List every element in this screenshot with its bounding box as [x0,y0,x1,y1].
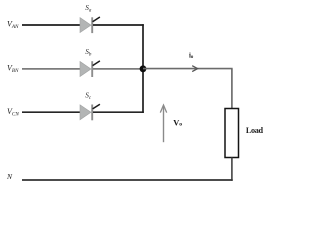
wire load bottom vertical [231,158,233,181]
wire cathode bus vertical [142,24,144,113]
thyristor Sc gate [93,104,100,109]
svg-text:Load: Load [246,126,264,135]
junction node dot [140,65,147,72]
thyristor Sa gate [93,17,100,22]
wire output horizontal [143,68,233,70]
wire phase A left [22,24,81,26]
thyristor Sb cathode bar [91,61,93,77]
arrow Vo [163,106,165,142]
wire neutral N [22,179,233,181]
wire phase A right [93,24,144,26]
thyristor Sa cathode bar [91,17,93,33]
wire phase B right [93,68,144,70]
thyristor Sc anode triangle [80,105,91,120]
thyristor Sb anode triangle [80,62,91,77]
thyristor Sb gate [93,61,100,66]
wire load top vertical [231,69,233,109]
wire phase C left [22,111,81,113]
wire phase B left [22,68,81,70]
thyristor Sc cathode bar [91,105,93,121]
wire phase C right [93,111,144,113]
svg-text:N: N [6,172,13,181]
load resistor box [225,109,239,158]
arrowhead io [192,66,197,72]
thyristor Sa anode triangle [80,18,91,33]
